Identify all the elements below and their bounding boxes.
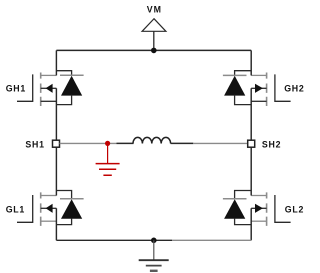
svg-text:SH1: SH1 xyxy=(25,140,44,150)
svg-text:GL2: GL2 xyxy=(285,205,304,215)
transistor GL1 source lead xyxy=(41,220,57,222)
wire inductor to SH2 (black then gray) xyxy=(171,142,194,144)
wire GH1 diode branch xyxy=(56,71,71,76)
top rail wire VM bus xyxy=(56,49,251,51)
wire VM stub xyxy=(153,31,155,50)
transistor GH2 gate xyxy=(275,74,291,101)
wire ground stub xyxy=(153,240,155,260)
svg-text:SH2: SH2 xyxy=(262,140,281,150)
diode GH1 cathode bar xyxy=(60,74,84,76)
diode GH2 body diode xyxy=(224,76,245,96)
wire GL2 drain to SH2 xyxy=(250,147,252,196)
transistor GH1 source lead xyxy=(41,100,57,102)
wire GH2 drain to rail xyxy=(250,50,252,75)
wire GL1 source to bottom rail xyxy=(55,208,57,240)
diode GH1 body diode xyxy=(61,76,82,96)
transistor GH1 channel bars xyxy=(40,73,42,107)
wire GL2 diode branch xyxy=(235,191,252,199)
node SH1 terminal square xyxy=(53,140,60,147)
transistor GL1 body lead with arrow xyxy=(41,207,57,209)
VM power supply symbol xyxy=(142,19,166,32)
wire SH1 to red junction (gray) xyxy=(60,142,117,144)
wire GL2 diode anode xyxy=(235,218,252,225)
transistor GH1 drain lead xyxy=(41,74,57,76)
transistor GH1 body lead with arrow xyxy=(41,87,57,89)
transistor GL2 body lead with arrow xyxy=(251,207,266,209)
node SH2 terminal square xyxy=(248,140,255,147)
transistor GL1 drain lead xyxy=(41,195,57,197)
wire GL1 drain to SH1 xyxy=(55,147,57,196)
diode GL2 body diode xyxy=(224,199,245,219)
wire red junction to inductor (black) xyxy=(117,142,134,144)
diode GL2 cathode bar xyxy=(223,198,247,200)
wire GH2 source to SH2 xyxy=(250,88,252,140)
wire red ground stub xyxy=(107,143,109,163)
svg-text:GH1: GH1 xyxy=(6,84,26,94)
transistor GH2 source lead xyxy=(251,100,266,102)
wire GL2 source to bottom rail xyxy=(250,208,252,240)
diode GL1 cathode bar xyxy=(60,198,84,200)
inductor motor winding xyxy=(133,137,171,143)
transistor GL2 drain lead xyxy=(251,195,266,197)
diode GL1 body diode xyxy=(61,199,82,219)
node junction dot on bottom rail xyxy=(151,238,157,244)
wire GL1 diode anode xyxy=(56,218,71,224)
wire GH2 diode anode xyxy=(235,95,252,105)
wire GH1 diode anode xyxy=(56,95,71,105)
transistor GL2 channel bars xyxy=(266,192,268,226)
transistor GL2 gate xyxy=(275,195,291,222)
transistor GL2 source lead xyxy=(251,220,266,222)
transistor GH2 body lead with arrow xyxy=(251,87,266,89)
wire GL1 diode branch xyxy=(56,191,71,199)
wire GH1 source to SH1 xyxy=(55,88,57,140)
diode GH2 cathode bar xyxy=(223,74,247,76)
svg-text:VM: VM xyxy=(147,5,162,15)
svg-text:GH2: GH2 xyxy=(284,84,304,94)
transistor GL1 channel bars xyxy=(40,192,42,226)
node red junction dot xyxy=(105,141,110,146)
node junction dot on top rail xyxy=(151,48,157,54)
wire GH2 diode branch xyxy=(235,71,252,76)
transistor GH1 gate xyxy=(17,74,33,101)
transistor GH2 channel bars xyxy=(266,73,268,107)
bottom rail wire (black then gray) xyxy=(56,239,172,241)
ground power ground xyxy=(139,259,169,261)
transistor GH2 drain lead xyxy=(251,74,266,76)
ground red reference ground xyxy=(96,164,120,176)
transistor GL1 gate xyxy=(17,195,33,222)
svg-text:GL1: GL1 xyxy=(6,205,25,215)
wire GH1 drain to rail xyxy=(55,50,57,75)
